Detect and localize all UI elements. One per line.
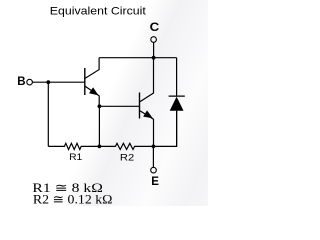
svg-text:B: B — [17, 76, 25, 88]
svg-text:R2 ≅ 0.12 kΩ: R2 ≅ 0.12 kΩ — [33, 192, 113, 206]
svg-text:R1: R1 — [69, 152, 82, 162]
svg-text:E: E — [151, 176, 159, 188]
svg-text:R2: R2 — [120, 153, 134, 163]
svg-text:C: C — [150, 22, 160, 34]
svg-text:Equivalent Circuit: Equivalent Circuit — [50, 6, 146, 18]
